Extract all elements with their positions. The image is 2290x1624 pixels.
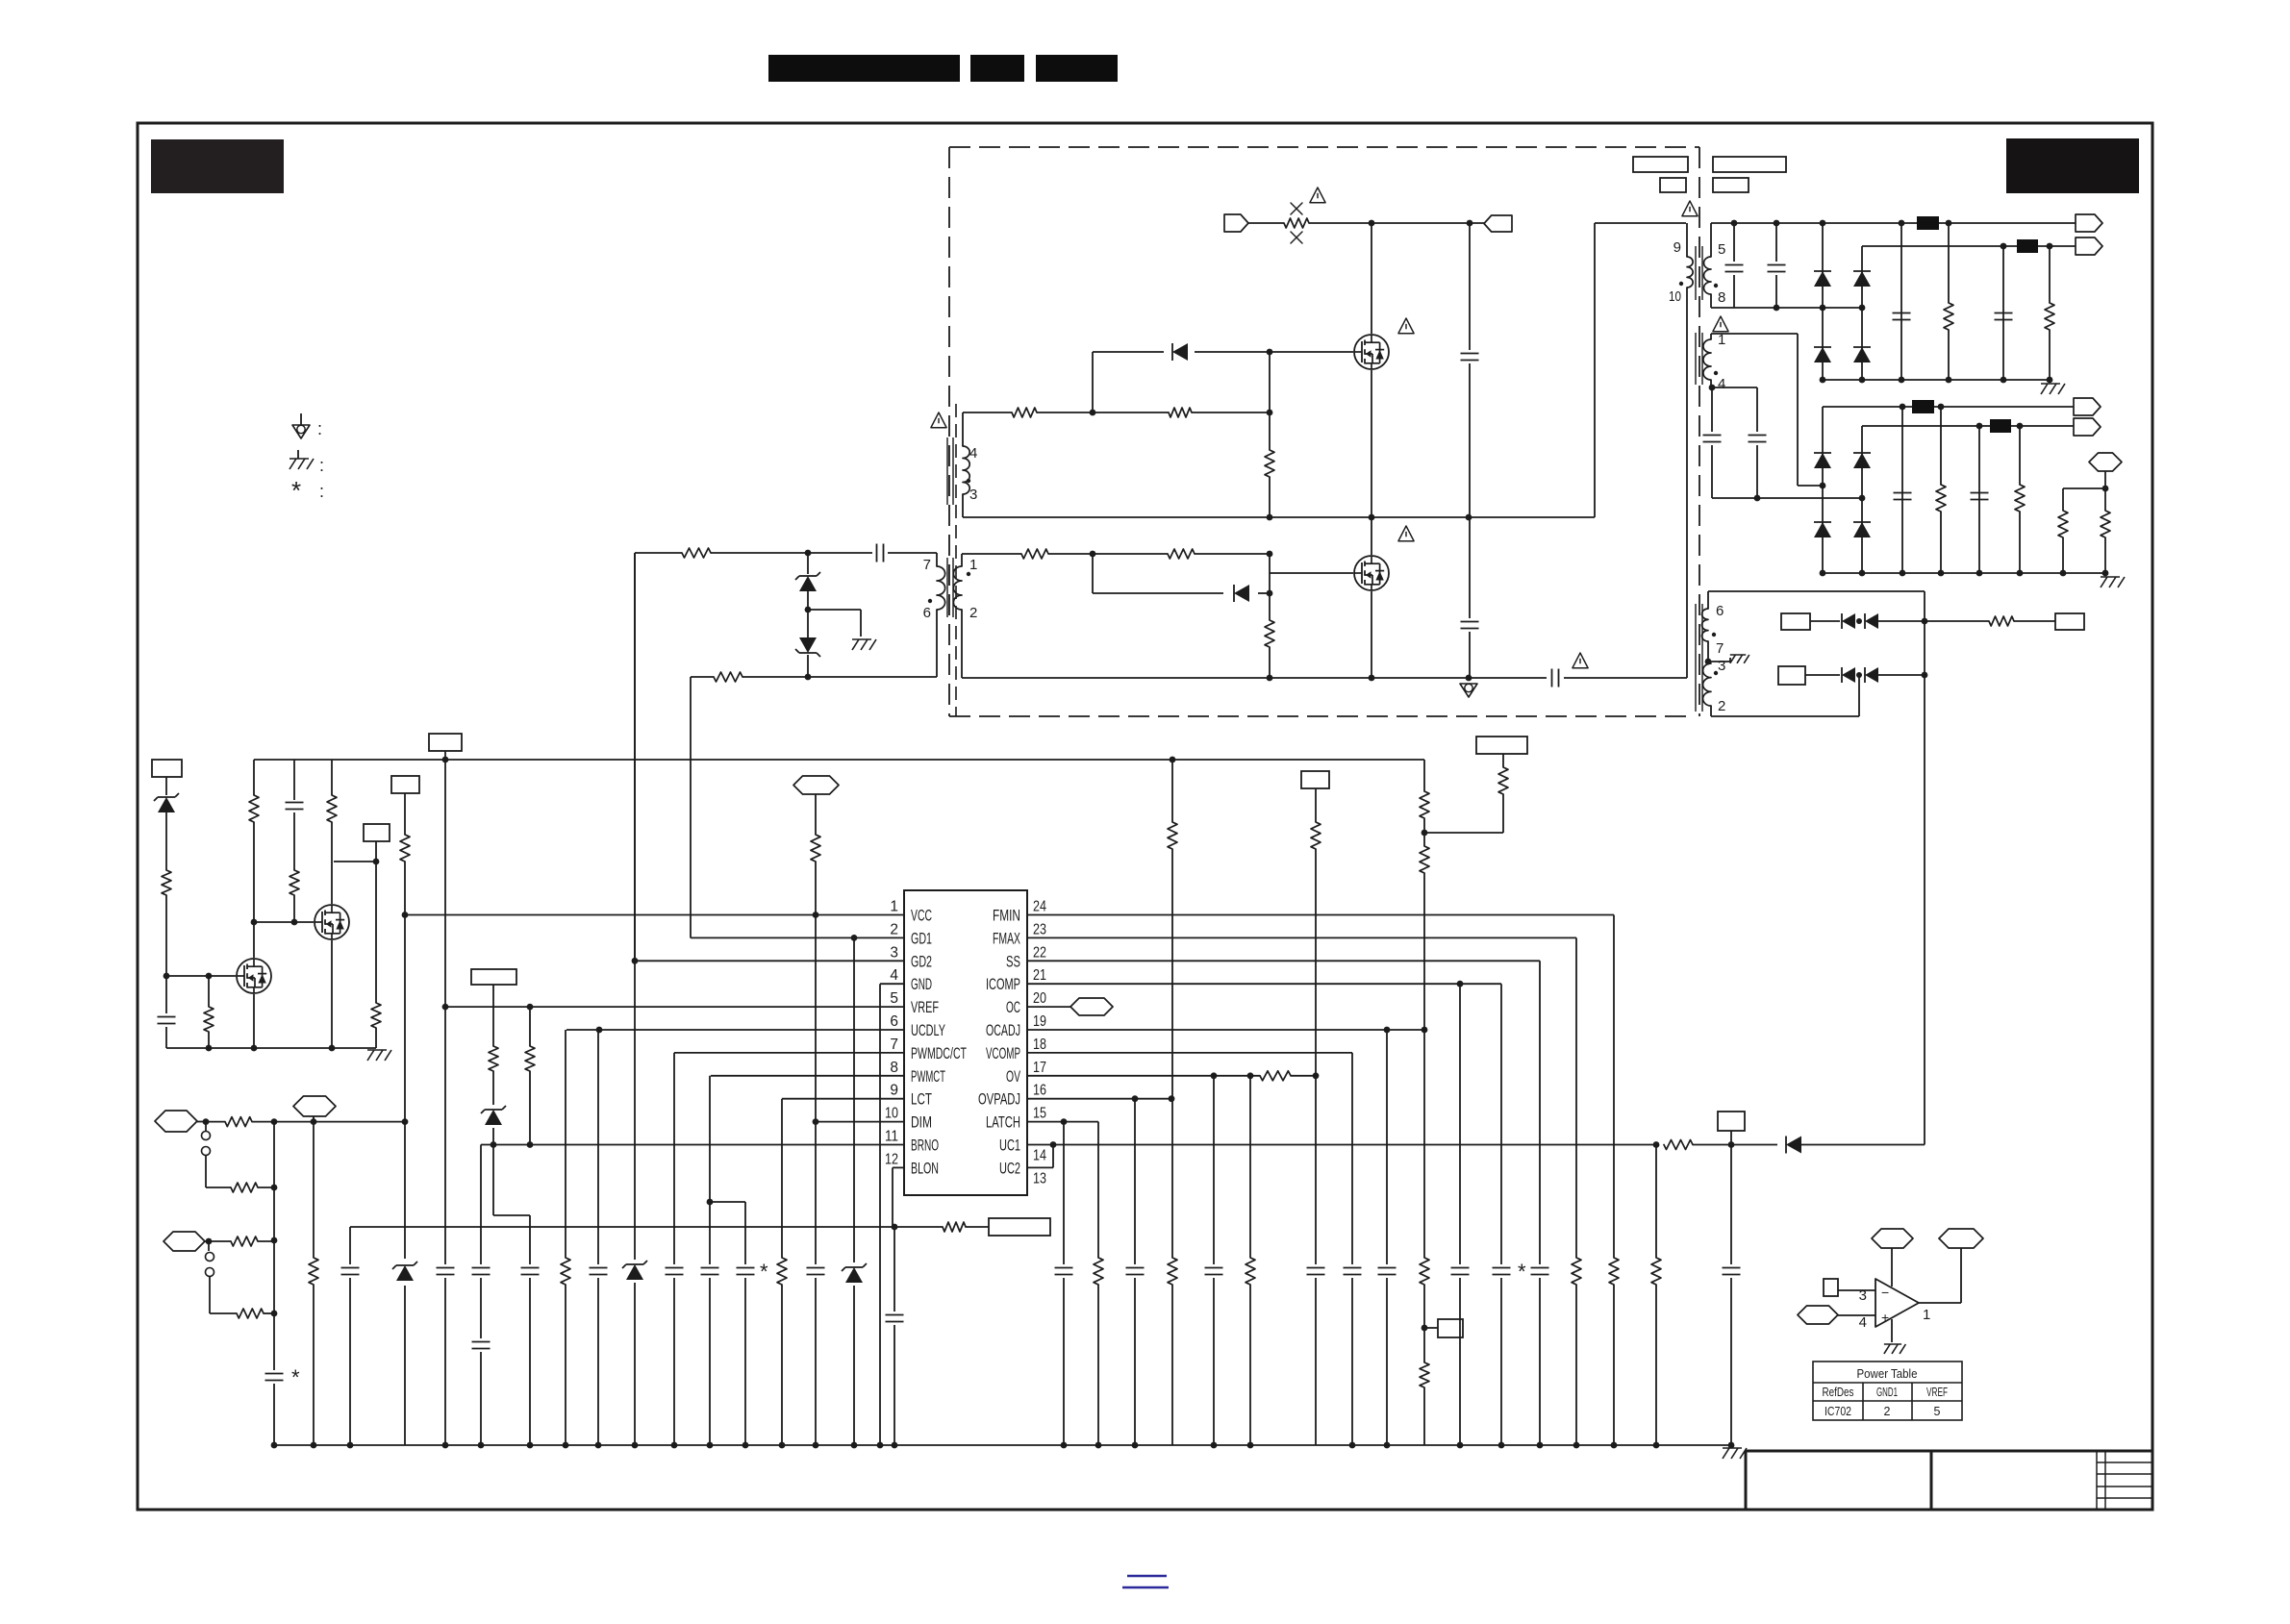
svg-text:GND: GND — [911, 976, 932, 993]
svg-text:9: 9 — [1673, 239, 1681, 256]
svg-text:VCOMP: VCOMP — [986, 1045, 1020, 1062]
svg-text:12: 12 — [885, 1151, 898, 1167]
svg-text:5: 5 — [1718, 241, 1725, 258]
svg-text::: : — [319, 456, 324, 475]
svg-text:17: 17 — [1033, 1060, 1046, 1076]
svg-text:OV: OV — [1006, 1068, 1020, 1086]
svg-text:LATCH: LATCH — [986, 1114, 1020, 1132]
svg-text:UCDLY: UCDLY — [911, 1022, 945, 1039]
svg-text:15: 15 — [1033, 1106, 1046, 1122]
svg-text:14: 14 — [1033, 1148, 1046, 1164]
svg-text:16: 16 — [1033, 1083, 1046, 1099]
svg-text:4: 4 — [969, 445, 977, 462]
svg-text:GD2: GD2 — [911, 953, 932, 970]
svg-text:19: 19 — [1033, 1013, 1046, 1030]
svg-text:+: + — [1881, 1310, 1889, 1325]
svg-text:3: 3 — [969, 487, 977, 503]
svg-text:2: 2 — [890, 921, 898, 937]
svg-text:2: 2 — [1884, 1405, 1891, 1418]
svg-text:4: 4 — [1859, 1314, 1867, 1331]
svg-text::: : — [319, 482, 324, 501]
svg-text:7: 7 — [1716, 640, 1724, 657]
svg-text:5: 5 — [1934, 1405, 1941, 1418]
svg-text:4: 4 — [890, 967, 898, 984]
svg-text:1: 1 — [890, 899, 898, 915]
svg-text:VREF: VREF — [1926, 1386, 1948, 1399]
svg-text:7: 7 — [890, 1037, 898, 1053]
svg-text:VREF: VREF — [911, 999, 939, 1016]
svg-text:Power Table: Power Table — [1857, 1366, 1918, 1381]
svg-text:VCC: VCC — [911, 908, 932, 925]
svg-text:−: − — [1881, 1285, 1889, 1300]
svg-text:PWMDC/CT: PWMDC/CT — [911, 1045, 967, 1062]
svg-text:OCADJ: OCADJ — [986, 1022, 1020, 1039]
svg-text:BRNO: BRNO — [911, 1137, 939, 1155]
svg-text:DIM: DIM — [911, 1114, 932, 1132]
svg-text:1: 1 — [1923, 1307, 1930, 1323]
svg-text:IC702: IC702 — [1824, 1405, 1851, 1418]
svg-text:13: 13 — [1033, 1170, 1046, 1187]
svg-text:8: 8 — [1718, 289, 1725, 306]
svg-text:2: 2 — [1718, 698, 1725, 714]
svg-text:2: 2 — [969, 605, 977, 621]
svg-text:BLON: BLON — [911, 1160, 939, 1177]
svg-text:9: 9 — [890, 1083, 898, 1099]
svg-text:GD1: GD1 — [911, 930, 932, 947]
svg-text:11: 11 — [885, 1129, 898, 1145]
svg-text:18: 18 — [1033, 1037, 1046, 1053]
svg-text:GND1: GND1 — [1876, 1386, 1898, 1399]
svg-text:23: 23 — [1033, 921, 1046, 937]
svg-text:6: 6 — [1716, 603, 1724, 619]
svg-text:20: 20 — [1033, 990, 1046, 1007]
svg-text:ICOMP: ICOMP — [986, 976, 1020, 993]
svg-text:OVPADJ: OVPADJ — [978, 1091, 1020, 1109]
svg-text:UC2: UC2 — [999, 1160, 1020, 1177]
svg-text:10: 10 — [1669, 288, 1681, 305]
svg-text:4: 4 — [1718, 376, 1725, 392]
svg-text:6: 6 — [923, 605, 931, 621]
svg-text:3: 3 — [890, 944, 898, 961]
svg-text::: : — [317, 419, 322, 438]
svg-text:5: 5 — [890, 990, 898, 1007]
svg-text:FMAX: FMAX — [993, 930, 1020, 947]
svg-text:OC: OC — [1006, 999, 1020, 1016]
svg-text:*: * — [1518, 1260, 1526, 1284]
svg-text:10: 10 — [885, 1106, 898, 1122]
svg-text:3: 3 — [1718, 658, 1725, 674]
svg-text:1: 1 — [969, 557, 977, 573]
svg-text:6: 6 — [890, 1013, 898, 1030]
svg-text:*: * — [291, 476, 301, 505]
svg-text:RefDes: RefDes — [1823, 1386, 1854, 1399]
svg-text:UC1: UC1 — [999, 1137, 1020, 1155]
svg-text:7: 7 — [923, 557, 931, 573]
svg-text:8: 8 — [890, 1060, 898, 1076]
svg-text:*: * — [291, 1365, 300, 1389]
svg-text:21: 21 — [1033, 967, 1046, 984]
svg-text:22: 22 — [1033, 944, 1046, 961]
svg-text:*: * — [760, 1260, 768, 1284]
svg-text:24: 24 — [1033, 899, 1046, 915]
svg-text:SS: SS — [1006, 953, 1020, 970]
svg-text:LCT: LCT — [911, 1091, 932, 1109]
svg-text:FMIN: FMIN — [993, 908, 1020, 925]
svg-text:PWMCT: PWMCT — [911, 1068, 945, 1086]
